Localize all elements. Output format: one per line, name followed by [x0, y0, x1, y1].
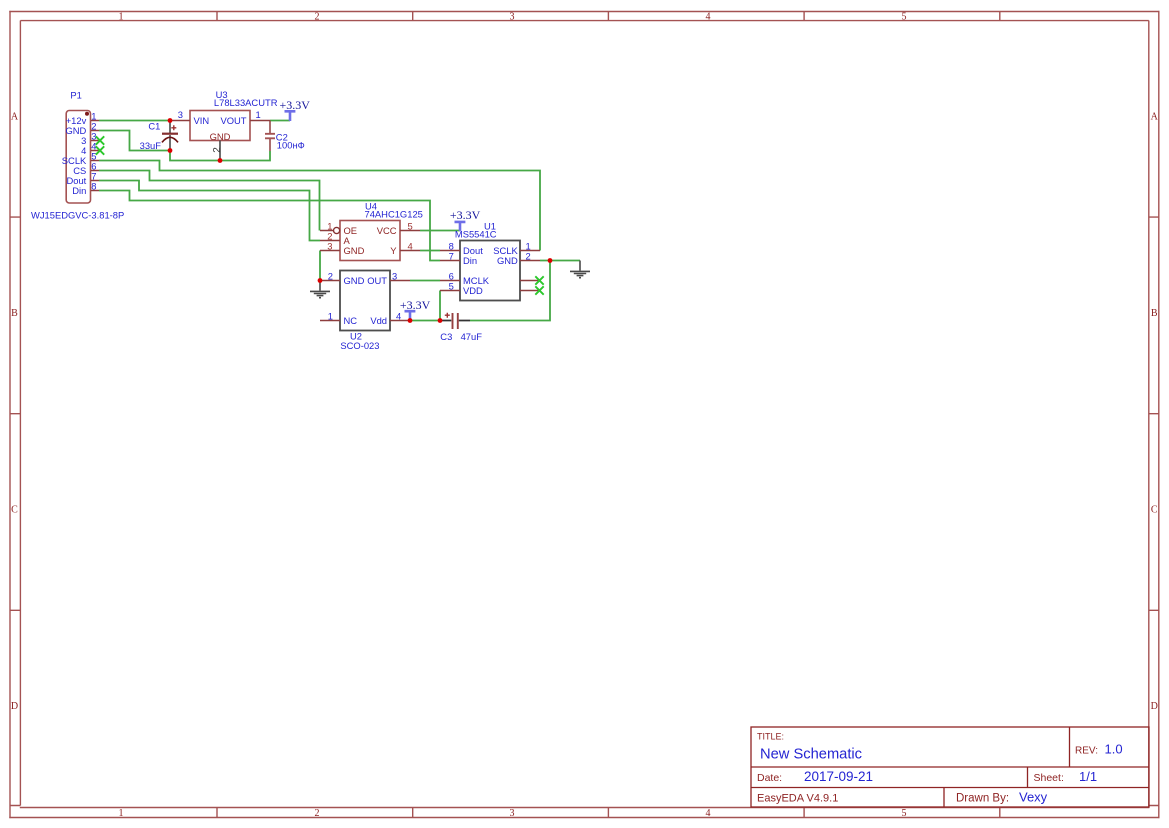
- svg-text:+3.3V: +3.3V: [400, 298, 431, 312]
- capacitor C2 100nF: [265, 121, 305, 152]
- wire SCLK net: P1.5 to U1.SCLK: [99, 161, 540, 251]
- svg-text:Vdd: Vdd: [370, 315, 387, 326]
- svg-text:P1: P1: [70, 89, 81, 100]
- svg-text:4: 4: [396, 310, 401, 321]
- svg-text:OUT: OUT: [367, 275, 387, 286]
- wire U4.Y to U1.Dout: [420, 250, 440, 252]
- wire +3.3V net: U2.Vdd to C3+ and U1.VDD: [410, 291, 440, 321]
- svg-text:4: 4: [706, 808, 711, 819]
- svg-text:2: 2: [315, 808, 320, 819]
- svg-text:Sheet:: Sheet:: [1034, 772, 1064, 784]
- node: junction U2.Vdd/+3.3V: [408, 318, 413, 323]
- svg-text:7: 7: [449, 250, 454, 261]
- wire U2.OUT to U1.MCLK: [410, 280, 440, 282]
- svg-text:4: 4: [706, 11, 711, 22]
- svg-text:C: C: [11, 505, 18, 516]
- svg-text:47uF: 47uF: [461, 331, 483, 342]
- power symbol +3.3V at U2.Vdd: [400, 298, 431, 321]
- svg-text:TITLE:: TITLE:: [757, 732, 784, 742]
- svg-text:33uF: 33uF: [140, 140, 162, 151]
- svg-text:2: 2: [212, 147, 223, 153]
- svg-text:8: 8: [91, 181, 96, 192]
- svg-text:D: D: [11, 701, 18, 712]
- svg-text:1: 1: [328, 310, 333, 321]
- connector P1 WJ15EDGVC-3.81-8P: [31, 89, 124, 220]
- svg-text:Din: Din: [72, 185, 86, 196]
- svg-text:5: 5: [449, 280, 454, 291]
- svg-text:1.0: 1.0: [1105, 742, 1123, 757]
- wire Din net: P1.8 to U1.Din: [99, 191, 440, 261]
- svg-text:C: C: [1151, 505, 1158, 516]
- svg-text:2: 2: [526, 250, 531, 261]
- svg-text:Din: Din: [463, 255, 477, 266]
- node: junction U1.GND/C3-/ground: [548, 258, 553, 263]
- svg-text:L78L33ACUTR: L78L33ACUTR: [214, 97, 278, 108]
- svg-text:Y: Y: [390, 245, 397, 256]
- svg-text:GND: GND: [344, 275, 365, 286]
- ground symbol at U2.GND node: [310, 281, 330, 298]
- svg-text:3: 3: [510, 11, 515, 22]
- wire U4.GND to ground node: [319, 251, 321, 281]
- capacitor C3 47uF (polarized): [440, 313, 482, 343]
- svg-text:GND: GND: [210, 131, 231, 142]
- svg-text:GND: GND: [497, 255, 518, 266]
- wire Dout net: P1.7 to U4.A: [99, 181, 320, 241]
- svg-text:VOUT: VOUT: [220, 115, 246, 126]
- wire +3.3V net at U3.VOUT: [270, 120, 290, 122]
- node: junction P1.2/C1-: [168, 148, 173, 153]
- svg-text:3: 3: [392, 270, 397, 281]
- svg-text:C3: C3: [440, 331, 452, 342]
- svg-text:A: A: [1151, 111, 1159, 122]
- wire CS net: P1.6 to U4.OE: [99, 171, 320, 231]
- voltage regulator U3 L78L33ACUTR: [170, 89, 278, 161]
- svg-text:VCC: VCC: [377, 225, 397, 236]
- wire GND(in) net: P1.2 to C1- to U3.GND to C2-: [99, 131, 270, 161]
- svg-text:3: 3: [510, 808, 515, 819]
- svg-text:1/1: 1/1: [1079, 769, 1097, 784]
- svg-text:2: 2: [328, 270, 333, 281]
- node: junction P1.1/C1+/U3.VIN: [168, 118, 173, 123]
- svg-text:VIN: VIN: [194, 115, 210, 126]
- svg-text:+3.3V: +3.3V: [279, 98, 310, 112]
- svg-text:Drawn By:: Drawn By:: [956, 793, 1009, 805]
- svg-text:D: D: [1151, 701, 1158, 712]
- svg-text:100нФ: 100нФ: [277, 140, 305, 151]
- svg-text:1: 1: [119, 808, 124, 819]
- svg-text:WJ15EDGVC-3.81-8P: WJ15EDGVC-3.81-8P: [31, 210, 124, 221]
- pressure sensor U1 MS5541C: [440, 221, 540, 301]
- svg-text:GND: GND: [344, 245, 365, 256]
- svg-text:NC: NC: [344, 315, 358, 326]
- svg-text:1: 1: [256, 109, 261, 120]
- svg-text:4: 4: [408, 240, 413, 251]
- svg-text:VDD: VDD: [463, 285, 483, 296]
- svg-text:2017-09-21: 2017-09-21: [804, 769, 873, 784]
- svg-text:5: 5: [902, 11, 907, 22]
- power symbol +3.3V at U3.VOUT: [279, 98, 310, 121]
- oscillator U2 SCO-023: [320, 270, 410, 351]
- svg-text:C1: C1: [148, 120, 160, 131]
- wire GND net: C3- to U1.GND to ground: [470, 261, 580, 321]
- buffer U4 74AHC1G125: [320, 201, 423, 261]
- no-connect X on U1 right pin: [535, 276, 543, 284]
- wire +12V net: P1.1 to C1/U3.VIN: [99, 120, 170, 122]
- title block: [751, 727, 1149, 807]
- svg-text:Vexy: Vexy: [1019, 790, 1048, 805]
- capacitor C1 33uF (polarized): [140, 120, 178, 151]
- svg-text:A: A: [11, 111, 19, 122]
- svg-text:2: 2: [315, 11, 320, 22]
- node: junction U3.GND rail: [218, 158, 223, 163]
- svg-text:+3.3V: +3.3V: [450, 208, 481, 222]
- svg-text:1: 1: [119, 11, 124, 22]
- svg-text:5: 5: [902, 808, 907, 819]
- power symbol +3.3V at U4.VCC: [450, 208, 481, 231]
- svg-text:New Schematic: New Schematic: [760, 747, 862, 763]
- svg-text:Date:: Date:: [757, 772, 782, 784]
- svg-text:B: B: [11, 308, 18, 319]
- no-connect X on P1 pin 4: [96, 146, 104, 154]
- no-connect X on U1 right pin: [535, 286, 543, 294]
- svg-text:3: 3: [178, 109, 183, 120]
- svg-text:5: 5: [408, 220, 413, 231]
- svg-text:EasyEDA V4.9.1: EasyEDA V4.9.1: [757, 793, 838, 805]
- node: junction U2.GND/U4.GND/ground: [318, 278, 323, 283]
- wire +3.3V net at U4.VCC: [420, 230, 460, 232]
- svg-text:MS5541C: MS5541C: [455, 229, 497, 240]
- svg-text:74AHC1G125: 74AHC1G125: [365, 208, 423, 219]
- svg-text:REV:: REV:: [1075, 746, 1098, 757]
- svg-text:3: 3: [327, 240, 332, 251]
- ground symbol at U1.GND: [570, 261, 590, 278]
- svg-text:B: B: [1151, 308, 1158, 319]
- node: junction C3+/U1.VDD: [438, 318, 443, 323]
- svg-text:SCO-023: SCO-023: [340, 340, 379, 351]
- no-connect X on P1 pin 3: [96, 136, 104, 144]
